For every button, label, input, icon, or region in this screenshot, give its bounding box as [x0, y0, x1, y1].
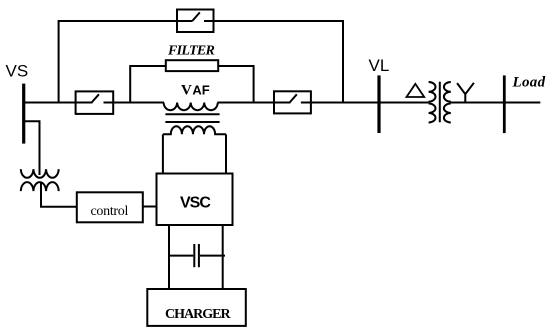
svg-text:CHARGER: CHARGER	[165, 307, 231, 322]
svg-text:FILTER: FILTER	[167, 44, 214, 59]
wire control to VSC	[143, 206, 157, 208]
wire secondary to VSC right	[225, 134, 227, 173]
wire main transformer to end	[450, 102, 540, 104]
wire main VS to S2	[23, 102, 77, 104]
svg-text:VS: VS	[6, 62, 29, 81]
injection transformer VAF primary coil	[164, 103, 218, 111]
wire VS bus tap to PT	[25, 121, 40, 175]
wire bypass left riser	[59, 21, 177, 103]
injection transformer core	[165, 113, 219, 115]
CHARGER box	[147, 289, 246, 326]
VSC box	[157, 174, 233, 226]
wire PT to control	[41, 183, 77, 207]
wire main S3 to transformer	[310, 102, 430, 104]
bus Load	[503, 75, 506, 133]
transformer T1 wye symbol	[457, 83, 474, 103]
svg-text:VAF: VAF	[181, 83, 210, 99]
capacitor C dc-link	[168, 244, 225, 267]
wire filter left branch	[130, 66, 166, 103]
wire bypass right riser	[214, 21, 344, 103]
instrument transformer PT primary winding	[21, 169, 59, 178]
svg-text:VL: VL	[369, 56, 390, 75]
instrument transformer PT secondary winding	[21, 182, 59, 191]
wire VSC to charger left	[168, 225, 170, 289]
switch S1 (bypass breaker)	[177, 10, 214, 33]
switch S3 (series breaker right)	[274, 91, 311, 113]
wire main VAF coil to S3	[218, 102, 276, 104]
bus VS	[22, 84, 25, 144]
bus VL	[377, 75, 380, 133]
filter box	[166, 60, 218, 71]
injection transformer secondary coil	[163, 126, 226, 134]
transformer T1 primary winding	[429, 82, 436, 123]
svg-text:Load: Load	[512, 75, 546, 91]
transformer T1 core	[439, 82, 441, 123]
wire main S2 to VAF coil	[112, 102, 164, 104]
svg-text:VSC: VSC	[180, 195, 211, 212]
wire VSC to charger right	[222, 225, 224, 289]
control box	[77, 192, 143, 222]
transformer T1 secondary winding	[444, 82, 451, 123]
svg-text:control: control	[91, 204, 129, 219]
switch S2 (series breaker left)	[76, 91, 114, 114]
wire filter right branch	[218, 66, 253, 103]
wire secondary to VSC left	[162, 134, 164, 173]
transformer T1 delta symbol	[407, 84, 425, 97]
